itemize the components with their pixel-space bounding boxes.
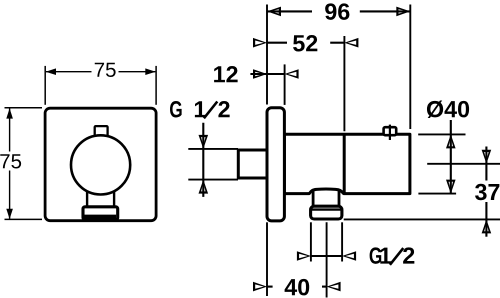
dimension 12: left open arrow (253, 69, 267, 79)
inlet dimension open arrows (199, 135, 209, 149)
extension line at plate left top (266, 5, 268, 105)
dimension 40: dimension line (267, 286, 273, 288)
holder bracket (83, 207, 118, 220)
dimension dia40: dimension line (450, 120, 452, 194)
extension line at body right end (409, 5, 411, 130)
extension line outlet center (326, 222, 328, 297)
holder bracket bottom bar (85, 215, 117, 220)
label G 1/2 for inlet (170, 101, 182, 118)
label G1/2 for outlet (370, 247, 382, 263)
inlet stub bottom reference line (188, 179, 238, 181)
dimension 75 horizontal: dimension line (46, 71, 92, 73)
dimension 37: open arrows (482, 150, 492, 164)
dimension 96: text (325, 3, 349, 20)
dimension dia40: open arrows (446, 134, 456, 148)
body section divider line (343, 134, 346, 193)
holder neck (87, 180, 114, 207)
dimension 40: text (285, 279, 310, 296)
dimension G1/2 outlet: dimension line (311, 255, 342, 257)
holder tab on top of pivot ball (95, 126, 108, 138)
top screw fitting (384, 127, 397, 135)
outlet neck left edge (312, 191, 315, 207)
dimension 12: right open arrow (285, 69, 299, 79)
dimension 75 vertical: extension lines (5, 107, 43, 109)
reference line body bottom for dia 40 (418, 193, 456, 195)
extension line at body divider (343, 36, 345, 131)
dimension 52: text (293, 35, 317, 52)
dimension 75 horizontal: filled arrows (46, 68, 56, 75)
dimension 75 horizontal: text (95, 63, 116, 77)
inlet pipe stub G1/2 (238, 150, 267, 178)
dimension 75 vertical: text (0, 154, 21, 168)
dimension 75 vertical: filled arrows (6, 108, 13, 118)
valve body outline with outlet dome (284, 134, 410, 193)
dimension 96: open arrows (267, 7, 281, 17)
dimension 75 horizontal: extension lines (44, 66, 46, 105)
extension line at plate left bottom (266, 222, 268, 296)
reference line outlet bottom for 37 (344, 218, 500, 220)
dimension 12: dimension line (250, 73, 284, 75)
outlet neck right edge (338, 191, 341, 207)
top screw fitting center line (389, 125, 391, 140)
dimension 37: dimension line (485, 147, 487, 181)
inlet dimension line (202, 123, 204, 197)
label dia 40 (427, 100, 469, 118)
dimension 96: dimension line (267, 10, 312, 12)
inlet stub top reference line (188, 148, 238, 150)
outlet hose nut inner line (311, 208, 342, 210)
dimension 52: dimension line (267, 42, 287, 44)
dimension 75 vertical: dimension line (9, 108, 11, 151)
dimension 40: open arrows (253, 282, 267, 292)
extension line outlet right (341, 222, 343, 261)
wall plate front view (45, 108, 156, 221)
wall plate side view (267, 108, 284, 221)
label G1/2 fraction slash (390, 248, 403, 265)
label G 1/2 fraction slash (204, 102, 217, 119)
reference line body axis for 37 (427, 163, 500, 165)
outlet hose nut (311, 206, 342, 219)
dimension 37: text (475, 184, 499, 201)
dimension 12: text (214, 66, 238, 82)
reference line body top for dia 40 (418, 133, 465, 135)
dimension G1/2 outlet: open arrows (297, 251, 311, 261)
extension line outlet left (310, 222, 312, 261)
extension line at plate right (284, 64, 286, 105)
dimension 52: open arrows (253, 38, 267, 48)
pivot ball circle (71, 135, 130, 194)
